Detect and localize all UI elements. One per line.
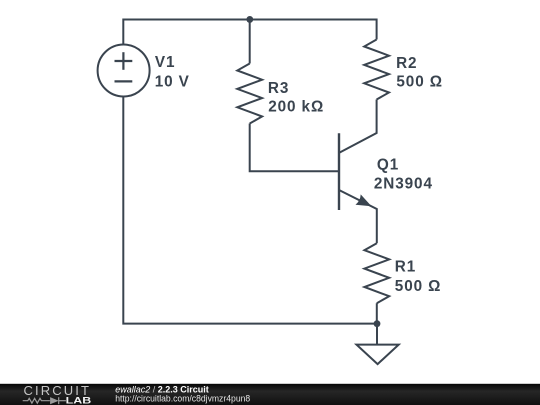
- resistor R3: [237, 64, 262, 124]
- logo wire resistor-diode glyph: [23, 397, 66, 404]
- resistor R1: [364, 243, 389, 303]
- wire R1 bottom lead: [376, 303, 378, 323]
- ground: [376, 324, 378, 345]
- voltage source V1: [98, 45, 150, 97]
- resistor R2: [364, 40, 389, 100]
- svg-text:R1: R1: [395, 259, 416, 276]
- svg-text:R2: R2: [396, 55, 417, 72]
- transistor Q1 emitter: [339, 190, 377, 243]
- svg-text:Q1: Q1: [377, 156, 399, 173]
- svg-text:500 Ω: 500 Ω: [396, 74, 443, 91]
- svg-text:http://circuitlab.com/c8djvmzr: http://circuitlab.com/c8djvmzr4pun8: [115, 394, 250, 404]
- svg-text:200 kΩ: 200 kΩ: [268, 99, 324, 116]
- wire top rail: [123, 20, 376, 45]
- svg-text:2N3904: 2N3904: [374, 175, 433, 192]
- svg-text:LAB: LAB: [66, 396, 92, 405]
- wire R3 top lead: [249, 20, 251, 64]
- wire left rail and bottom rail: [123, 97, 377, 324]
- footer bar: [0, 384, 540, 405]
- transistor Q1 bar: [338, 133, 340, 210]
- svg-text:500 Ω: 500 Ω: [395, 278, 442, 295]
- svg-text:R3: R3: [268, 80, 289, 97]
- svg-text:V1: V1: [155, 54, 176, 71]
- wire R3 bottom to base: [250, 124, 339, 172]
- wire R2 bottom lead to collector: [339, 100, 377, 153]
- node junction bottom: [374, 320, 381, 327]
- svg-text:10 V: 10 V: [155, 73, 190, 90]
- transistor Q1 emitter arrow: [355, 194, 374, 211]
- node junction top: [246, 16, 253, 23]
